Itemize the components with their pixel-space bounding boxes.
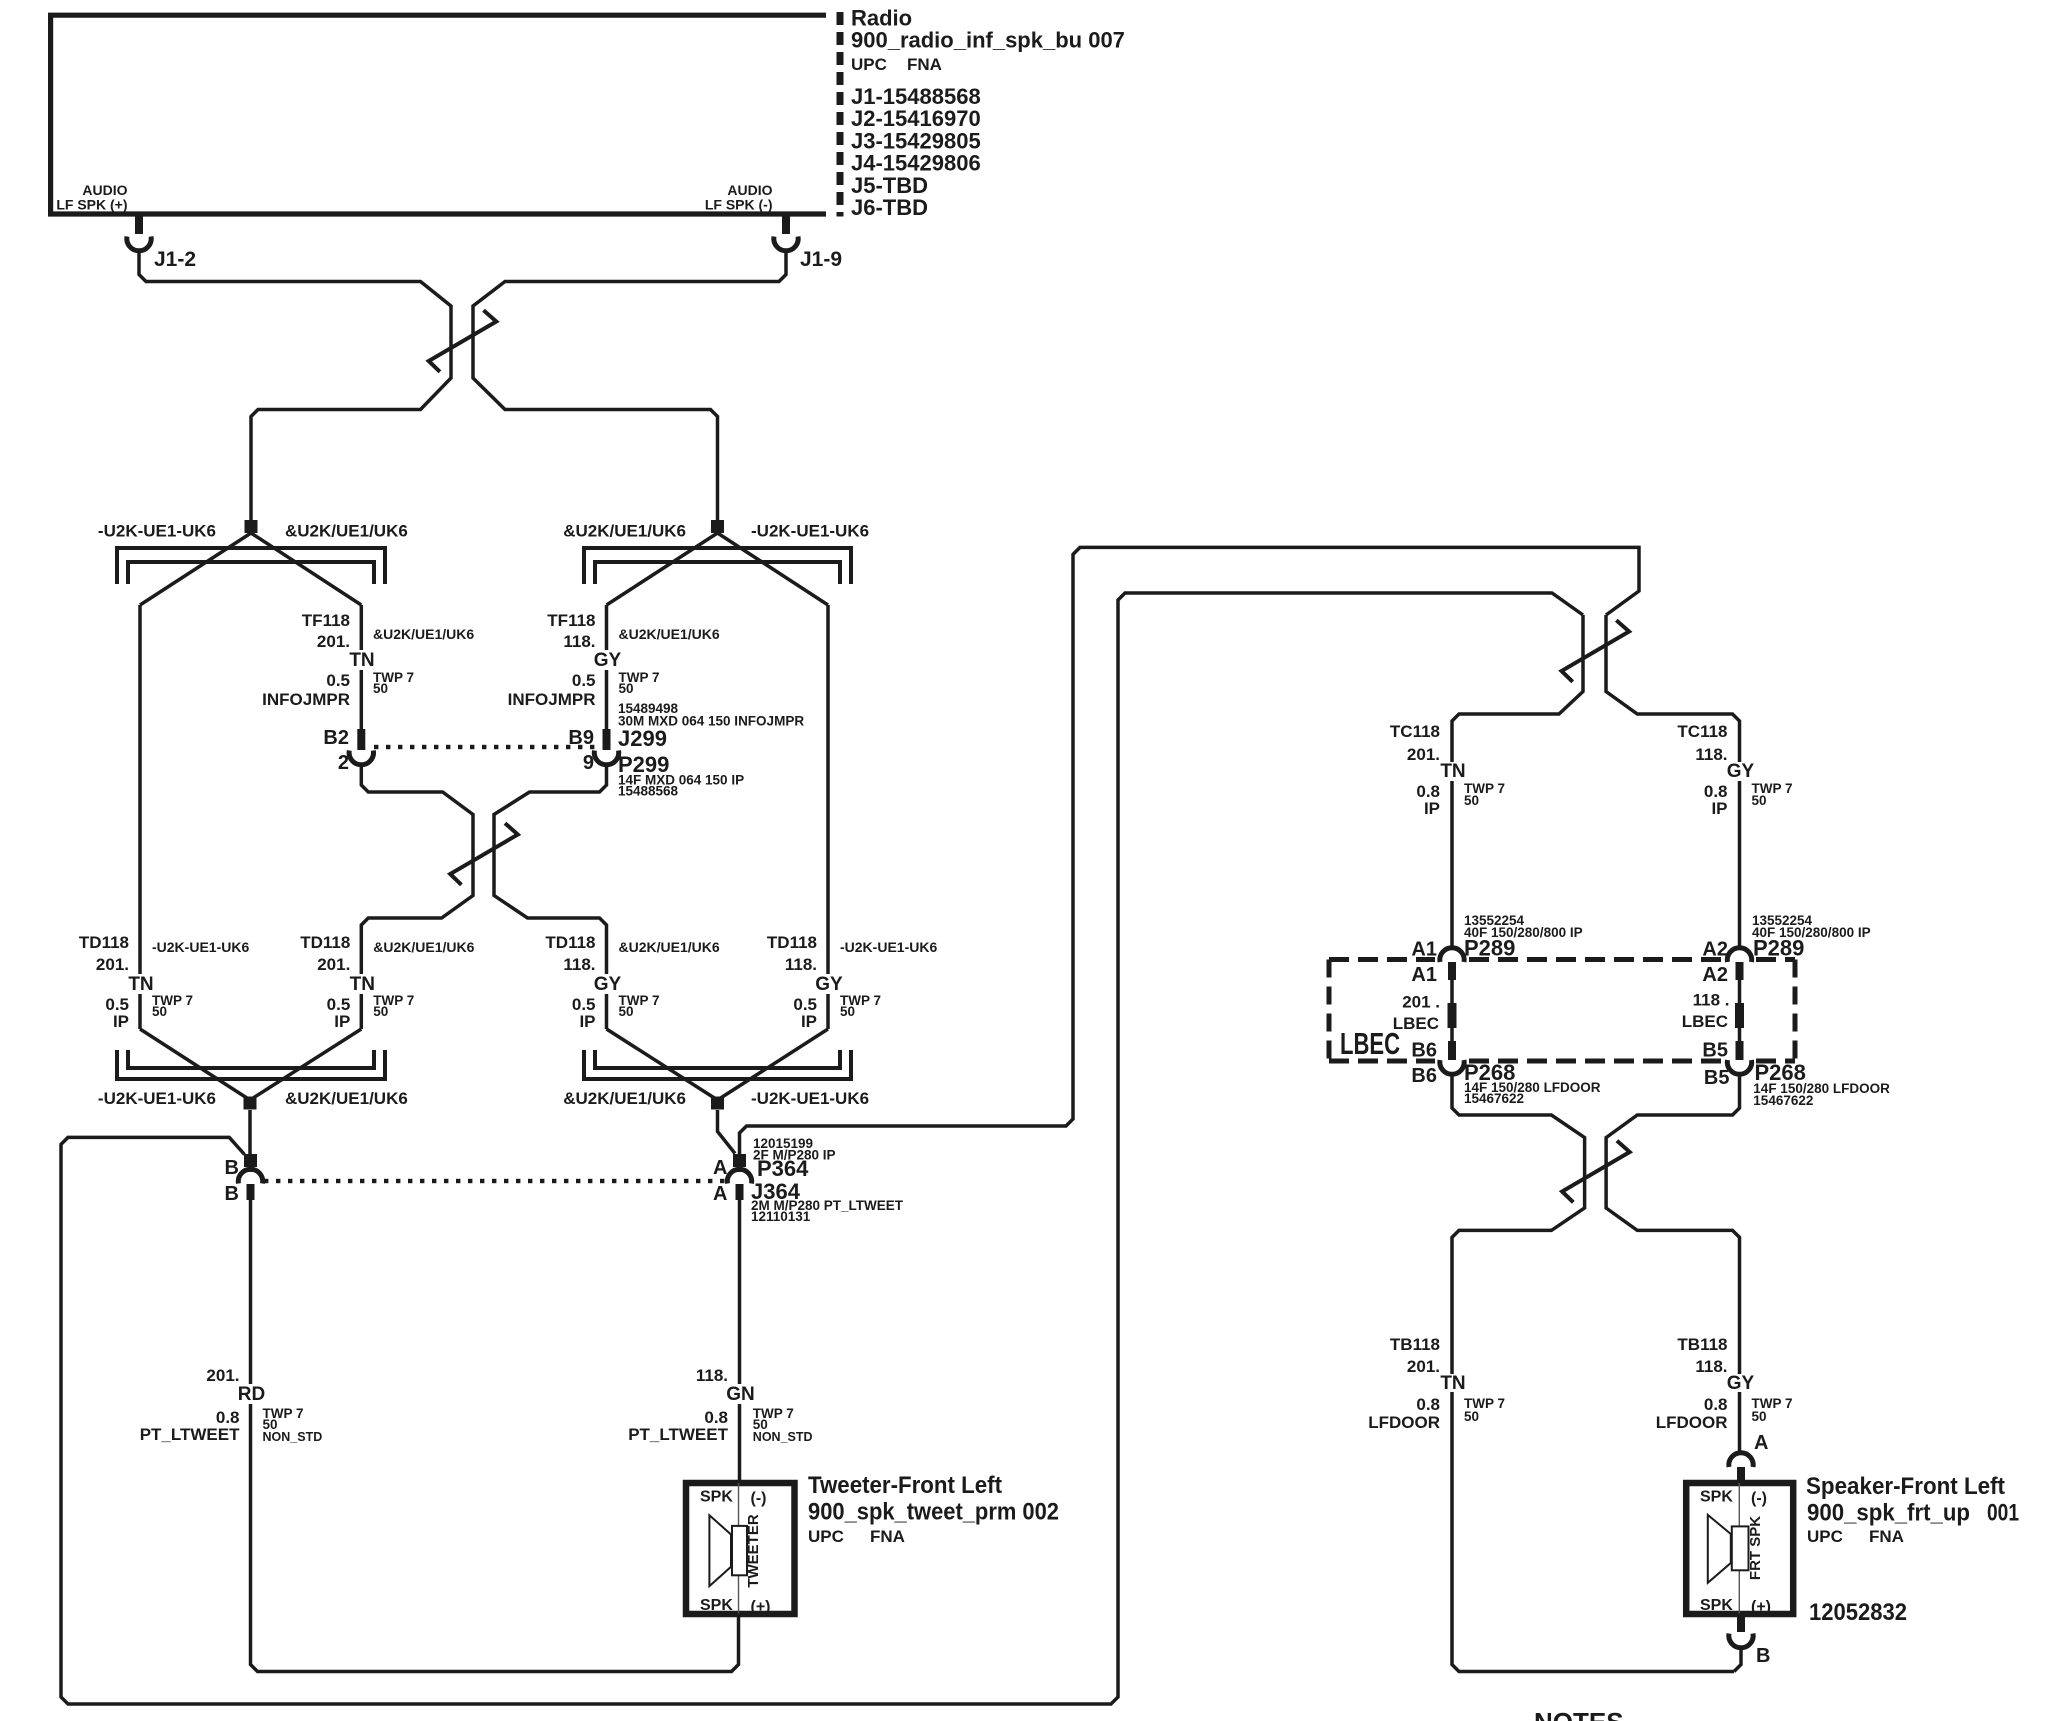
svg-text:J6-TBD: J6-TBD [851, 195, 928, 220]
option bracket inner left fan-out [128, 562, 374, 584]
option bracket inner right fan-in [595, 1050, 840, 1068]
wire label 118. GN PT_LTWEET [628, 1366, 812, 1444]
svg-text:J299: J299 [618, 726, 667, 751]
svg-text:-U2K-UE1-UK6: -U2K-UE1-UK6 [751, 522, 869, 541]
svg-text:B9: B9 [568, 727, 594, 749]
junction splice left fan-out [245, 520, 258, 533]
svg-text:A1: A1 [1411, 939, 1437, 961]
svg-text:A: A [713, 1157, 727, 1179]
svg-text:001: 001 [1987, 1500, 2019, 1527]
connector pin B2 J299/P299 [349, 729, 373, 765]
wire W1 B-tap to right section (201 circuit) [61, 593, 1583, 1704]
wire J1-2 to left junction [139, 251, 451, 521]
svg-text:TN: TN [350, 974, 375, 995]
svg-text:TD118: TD118 [767, 933, 817, 952]
svg-text:IP: IP [801, 1012, 817, 1031]
svg-text:LBEC: LBEC [1340, 1026, 1400, 1061]
wire label TD118 118. GY (far right) [767, 933, 938, 1031]
wire 118 GN to tweeter (-) [738, 1200, 742, 1481]
svg-text:-U2K-UE1-UK6: -U2K-UE1-UK6 [840, 939, 937, 955]
svg-text:B5: B5 [1702, 1040, 1728, 1062]
svg-text:0.8: 0.8 [1704, 1395, 1728, 1414]
wire TD118 right outer [826, 605, 830, 1029]
radio pin label AUDIO LF SPK (-) [705, 182, 773, 213]
option bracket outer left fan-in [117, 1050, 385, 1079]
svg-text:GY: GY [1727, 761, 1755, 782]
svg-text:TN: TN [1440, 1373, 1465, 1394]
svg-text:IP: IP [1711, 799, 1727, 818]
wire label TC118 118. GY IP [1677, 722, 1792, 818]
svg-text:&U2K/UE1/UK6: &U2K/UE1/UK6 [373, 626, 474, 642]
wire fan-in left diagonals [140, 1029, 361, 1100]
wire B6 through twist4 to TB118 TN [1452, 1073, 1734, 1672]
wire TF118 118 GY [605, 605, 609, 729]
junction splice right fan-in [711, 1097, 724, 1110]
junction splice right fan-out [711, 520, 724, 533]
svg-text:50: 50 [373, 1004, 388, 1019]
svg-text:(+): (+) [751, 1599, 771, 1616]
dotted connector tie B2-B9 [374, 745, 594, 749]
wire LBEC 118 segment [1738, 980, 1742, 1041]
svg-text:&U2K/UE1/UK6: &U2K/UE1/UK6 [619, 626, 720, 642]
net label -U2K-UE1-UK6 right [751, 522, 869, 541]
wire label TF118 201. TN INFOJMPR [262, 611, 474, 709]
svg-text:LFDOOR: LFDOOR [1368, 1413, 1440, 1432]
svg-text:Speaker-Front Left: Speaker-Front Left [1806, 1473, 2005, 1500]
svg-text:9: 9 [583, 752, 594, 774]
svg-text:A: A [713, 1183, 727, 1205]
svg-text:TN: TN [128, 974, 153, 995]
tweeter internal labels [700, 1489, 771, 1616]
svg-text:TD118: TD118 [79, 933, 129, 952]
svg-text:IP: IP [334, 1012, 350, 1031]
svg-text:UPC: UPC [851, 55, 887, 74]
svg-text:118.: 118. [563, 955, 595, 974]
svg-text:&U2K/UE1/UK6: &U2K/UE1/UK6 [563, 522, 686, 541]
svg-text:LBEC: LBEC [1682, 1012, 1728, 1031]
svg-text:B: B [1756, 1645, 1770, 1667]
tweeter pin line [738, 1483, 740, 1614]
svg-text:&U2K/UE1/UK6: &U2K/UE1/UK6 [285, 1089, 408, 1108]
svg-text:SPK: SPK [700, 1489, 733, 1506]
svg-text:GN: GN [726, 1384, 755, 1405]
svg-text:NOTES: NOTES [1534, 1707, 1624, 1721]
junction tap B [244, 1154, 257, 1167]
svg-text:&U2K/UE1/UK6: &U2K/UE1/UK6 [619, 939, 720, 955]
svg-text:50: 50 [619, 681, 634, 696]
svg-text:-U2K-UE1-UK6: -U2K-UE1-UK6 [751, 1089, 869, 1108]
net label &U2K/UE1/UK6 right [563, 522, 686, 541]
label J1-9 [800, 248, 842, 271]
svg-text:-U2K-UE1-UK6: -U2K-UE1-UK6 [152, 939, 249, 955]
net label -U2K-UE1-UK6 left [98, 522, 216, 541]
option bracket outer left fan-out [117, 548, 385, 584]
junction tap A [733, 1154, 746, 1167]
svg-text:B5: B5 [1704, 1067, 1730, 1089]
wire TD118 left inner lower [360, 994, 364, 1029]
svg-text:IP: IP [579, 1012, 595, 1031]
pin labels A2 B5 and P289 P268 right [1682, 913, 1890, 1108]
svg-text:PT_LTWEET: PT_LTWEET [628, 1425, 728, 1444]
svg-text:201 .: 201 . [1402, 993, 1440, 1012]
pin labels A1 B6 and P289 P268 left [1393, 913, 1601, 1106]
speaker component box [1686, 1483, 1793, 1614]
wire fan-in right diagonals [607, 1029, 829, 1100]
svg-text:50: 50 [1464, 793, 1479, 808]
wire LBEC 201 segment [1450, 980, 1454, 1041]
wire label 201. RD PT_LTWEET [140, 1366, 323, 1444]
svg-text:-U2K-UE1-UK6: -U2K-UE1-UK6 [98, 1089, 216, 1108]
connector pin B P364/J364 [238, 1167, 262, 1200]
svg-text:&U2K/UE1/UK6: &U2K/UE1/UK6 [373, 939, 474, 955]
svg-text:FNA: FNA [870, 1527, 905, 1546]
speaker pin line [1738, 1483, 1740, 1614]
wire TF118 201 TN [360, 605, 364, 729]
svg-text:B6: B6 [1411, 1040, 1437, 1062]
svg-text:(+): (+) [1751, 1599, 1771, 1616]
connector B6 P268 [1440, 1041, 1464, 1074]
svg-text:GY: GY [594, 974, 622, 995]
svg-text:TF118: TF118 [547, 611, 595, 630]
connector A1 P289 [1440, 948, 1464, 980]
svg-text:900_spk_frt_up: 900_spk_frt_up [1807, 1500, 1970, 1527]
svg-text:P364: P364 [757, 1156, 809, 1181]
svg-text:&U2K/UE1/UK6: &U2K/UE1/UK6 [285, 522, 408, 541]
svg-text:UPC: UPC [808, 1527, 844, 1546]
svg-text:201.: 201. [1407, 745, 1440, 764]
svg-text:INFOJMPR: INFOJMPR [262, 690, 350, 709]
svg-text:B2: B2 [323, 727, 349, 749]
wire TD118 left outer [138, 605, 142, 1029]
svg-text:TN: TN [349, 650, 374, 671]
svg-text:900_radio_inf_spk_bu 007: 900_radio_inf_spk_bu 007 [851, 28, 1125, 53]
svg-text:50: 50 [1752, 1409, 1767, 1424]
svg-text:IP: IP [1424, 799, 1440, 818]
label J1-2 [154, 248, 196, 271]
svg-text:50: 50 [152, 1004, 167, 1019]
svg-text:Tweeter-Front Left: Tweeter-Front Left [808, 1472, 1002, 1499]
twisted pair mark 3 [1562, 620, 1630, 682]
LBEC in-line harness dashed box [1329, 960, 1795, 1062]
svg-text:-U2K-UE1-UK6: -U2K-UE1-UK6 [98, 522, 216, 541]
radio pin label AUDIO LF SPK (+) [56, 182, 127, 213]
svg-text:J1-2: J1-2 [154, 248, 196, 271]
svg-text:50: 50 [1464, 1409, 1479, 1424]
svg-text:(-): (-) [1751, 1490, 1767, 1507]
svg-text:IP: IP [113, 1012, 129, 1031]
wire TC118 118 GY (twist3 right out to A2) [1606, 615, 1740, 950]
svg-text:A1: A1 [1411, 964, 1437, 986]
svg-text:118.: 118. [1695, 745, 1727, 764]
option bracket outer right fan-in [584, 1050, 851, 1079]
wire J1-9 to right junction [473, 251, 786, 521]
svg-text:SPK: SPK [1700, 1597, 1733, 1614]
svg-text:40F 150/280/800 IP: 40F 150/280/800 IP [1752, 925, 1871, 940]
pin label A / A [713, 1157, 727, 1205]
wire B5 through twist4 to TB118 GY [1606, 1073, 1739, 1453]
svg-text:FNA: FNA [907, 55, 942, 74]
svg-text:0.5: 0.5 [326, 671, 350, 690]
svg-text:TD118: TD118 [545, 933, 595, 952]
svg-text:118.: 118. [563, 632, 595, 651]
svg-text:TN: TN [1440, 761, 1465, 782]
svg-text:J1-9: J1-9 [800, 248, 842, 271]
svg-text:0.8: 0.8 [1416, 1395, 1440, 1414]
wire TC118 201 TN (twist3 left out to A1) [1452, 615, 1583, 950]
svg-text:15467622: 15467622 [1753, 1093, 1813, 1108]
svg-text:A2: A2 [1702, 939, 1728, 961]
wire label TD118 201. TN (far left) [79, 933, 250, 1031]
svg-text:118 .: 118 . [1693, 991, 1730, 1010]
svg-text:LF SPK (-): LF SPK (-) [705, 197, 773, 213]
svg-text:(-): (-) [751, 1490, 767, 1507]
svg-text:201.: 201. [96, 955, 129, 974]
wire fan-out left diagonals [140, 533, 361, 605]
tweeter component box [686, 1483, 795, 1614]
svg-text:B: B [225, 1183, 239, 1205]
pin label B2 / 2 [323, 727, 349, 774]
svg-text:FNA: FNA [1869, 1527, 1904, 1546]
svg-text:GY: GY [594, 650, 622, 671]
connector pin A speaker [1729, 1453, 1753, 1482]
svg-text:LF SPK (+): LF SPK (+) [56, 197, 127, 213]
connector pin A P364/J364 [727, 1167, 751, 1200]
wire speaker B return [1734, 1647, 1741, 1672]
svg-text:A2: A2 [1702, 964, 1728, 986]
pin label B / B [225, 1157, 239, 1205]
svg-text:TC118: TC118 [1390, 722, 1440, 741]
svg-text:201.: 201. [317, 955, 350, 974]
radio title block [851, 6, 1125, 221]
net label -U2K-UE1-UK6 lower left [98, 1089, 216, 1108]
wire label TD118 201. TN (inner left) [300, 933, 474, 1031]
svg-text:50: 50 [840, 1004, 855, 1019]
wire fan-out right diagonals [607, 533, 829, 605]
connector pin J1-2 [127, 216, 151, 251]
svg-text:TB118: TB118 [1677, 1335, 1727, 1354]
label J299 P299 descriptors [618, 701, 804, 799]
label Tweeter-Front Left header [808, 1472, 1059, 1546]
svg-text:2: 2 [338, 752, 349, 774]
twisted pair mark 2 [450, 823, 518, 885]
connector B5 P268 [1727, 1041, 1751, 1074]
junction splice left fan-in [244, 1097, 257, 1110]
svg-text:TC118: TC118 [1677, 722, 1727, 741]
label LBEC box [1340, 1026, 1400, 1061]
svg-text:40F 150/280/800 IP: 40F 150/280/800 IP [1464, 925, 1583, 940]
svg-text:RD: RD [238, 1384, 265, 1405]
twisted pair mark 4 [1562, 1141, 1630, 1203]
wire B9 through twist to TD118 [494, 764, 607, 974]
svg-text:LBEC: LBEC [1393, 1014, 1439, 1033]
wire label TB118 118. GY LFDOOR [1656, 1335, 1793, 1432]
svg-text:UPC: UPC [1807, 1527, 1843, 1546]
dotted connector tie B-A [264, 1179, 724, 1183]
speaker internal labels [1700, 1489, 1771, 1616]
connector A2 P289 [1727, 948, 1751, 980]
net label &U2K/UE1/UK6 left [285, 522, 408, 541]
svg-text:SPK: SPK [1700, 1489, 1733, 1506]
svg-text:LFDOOR: LFDOOR [1656, 1413, 1728, 1432]
svg-text:50: 50 [1752, 793, 1767, 808]
svg-text:TB118: TB118 [1390, 1335, 1440, 1354]
svg-text:TF118: TF118 [302, 611, 350, 630]
svg-text:118.: 118. [696, 1366, 728, 1385]
svg-text:INFOJMPR: INFOJMPR [508, 690, 596, 709]
connector pin B9 J299/P299 [594, 729, 618, 765]
twisted pair mark 1 [429, 310, 497, 372]
svg-text:0.5: 0.5 [572, 671, 596, 690]
connector pin B speaker [1729, 1616, 1753, 1648]
net label -U2K-UE1-UK6 lower right [751, 1089, 869, 1108]
svg-text:&U2K/UE1/UK6: &U2K/UE1/UK6 [563, 1089, 686, 1108]
label Speaker-Front Left header [1806, 1473, 2019, 1626]
svg-text:50: 50 [373, 681, 388, 696]
svg-text:15488568: 15488568 [618, 784, 679, 799]
speaker icon tweeter [709, 1515, 747, 1586]
label NOTES [1534, 1707, 1624, 1721]
svg-text:12110131: 12110131 [751, 1209, 811, 1224]
pin label B9 / 9 [568, 727, 594, 774]
option bracket outer right fan-out [584, 548, 851, 584]
svg-text:B6: B6 [1411, 1065, 1437, 1087]
label P364 J364 descriptors [751, 1136, 904, 1224]
svg-text:TWEETER: TWEETER [745, 1514, 762, 1587]
svg-text:FRT SPK: FRT SPK [1747, 1516, 1764, 1580]
wire W2 A-tap to right section (118 circuit) [740, 547, 1640, 1154]
svg-text:118.: 118. [1695, 1357, 1727, 1376]
net label &U2K/UE1/UK6 lower left [285, 1089, 408, 1108]
svg-text:GY: GY [1727, 1373, 1755, 1394]
wire 201 RD to tweeter (+) [251, 1200, 739, 1672]
svg-text:PT_LTWEET: PT_LTWEET [140, 1425, 240, 1444]
svg-text:15467622: 15467622 [1464, 1091, 1524, 1106]
option bracket inner right fan-out [595, 562, 840, 584]
speaker icon frt spk [1708, 1515, 1749, 1583]
svg-text:NON_STD: NON_STD [263, 1430, 323, 1444]
svg-text:118.: 118. [785, 955, 817, 974]
svg-text:201.: 201. [1407, 1357, 1440, 1376]
svg-text:A: A [1754, 1432, 1768, 1454]
svg-text:201.: 201. [206, 1366, 239, 1385]
svg-text:12052832: 12052832 [1809, 1599, 1907, 1626]
connector pin J1-9 [774, 216, 798, 251]
wire label TF118 118. GY INFOJMPR [508, 611, 720, 709]
wire right fan-in to A tap [718, 1110, 736, 1154]
svg-text:TD118: TD118 [300, 933, 350, 952]
pin label B speaker [1756, 1645, 1770, 1667]
wire B2 through twist to TD118 [361, 764, 473, 974]
pin label A speaker [1754, 1432, 1768, 1454]
svg-text:GY: GY [815, 974, 843, 995]
radio component box [51, 12, 840, 217]
svg-text:NON_STD: NON_STD [753, 1430, 813, 1444]
svg-text:50: 50 [619, 1004, 634, 1019]
wire label TC118 201. TN IP [1390, 722, 1505, 818]
wire left fan-in to B tap [248, 1110, 252, 1154]
wire label TD118 118. GY (inner right) [545, 933, 719, 1031]
svg-text:900_spk_tweet_prm 002: 900_spk_tweet_prm 002 [808, 1499, 1059, 1526]
option bracket inner left fan-in [128, 1050, 374, 1068]
svg-text:SPK: SPK [700, 1597, 733, 1614]
wire label TB118 201. TN LFDOOR [1368, 1335, 1505, 1432]
wire TD118 right inner lower [605, 994, 609, 1029]
net label &U2K/UE1/UK6 lower right [563, 1089, 686, 1108]
svg-text:201.: 201. [317, 632, 350, 651]
svg-text:B: B [225, 1157, 239, 1179]
